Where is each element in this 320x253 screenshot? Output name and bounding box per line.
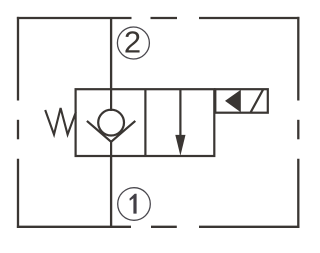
solenoid diagonal slash [251,89,264,112]
check valve ball [98,110,124,136]
cartridge envelope left edge [17,17,19,228]
wire inside left position (below seat) [110,141,112,157]
solenoid box (right actuator) [215,89,267,113]
wire port 2 (top border to valve body) [110,18,112,90]
flow arrow stem (right position) [179,89,181,136]
spring (left actuator) [45,108,76,135]
wire port 1 (valve body to bottom border) [110,156,112,227]
valve body outline (two-position envelope) [76,89,215,156]
node 1 label text [129,194,136,214]
wire inside left position (above check ball) [110,89,112,111]
cartridge envelope (dashed boundary) top edge [17,17,300,19]
solenoid triangle (filled) [225,90,241,113]
node 1 label circle [118,188,151,221]
cartridge envelope right edge [297,17,299,228]
flow arrow head [175,135,185,156]
valve position divider [144,89,146,156]
svg-text:2: 2 [124,25,141,60]
node 2 label circle [117,27,149,59]
check valve seat (V) [87,121,135,142]
cartridge envelope bottom edge [17,226,300,228]
